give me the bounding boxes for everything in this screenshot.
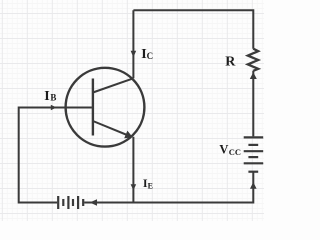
svg-text:R: R xyxy=(225,55,236,70)
svg-text:I: I xyxy=(44,89,49,104)
svg-text:CC: CC xyxy=(229,147,241,157)
svg-text:B: B xyxy=(50,93,56,103)
svg-text:V: V xyxy=(219,142,228,156)
svg-text:E: E xyxy=(148,181,153,190)
svg-text:C: C xyxy=(147,51,154,61)
